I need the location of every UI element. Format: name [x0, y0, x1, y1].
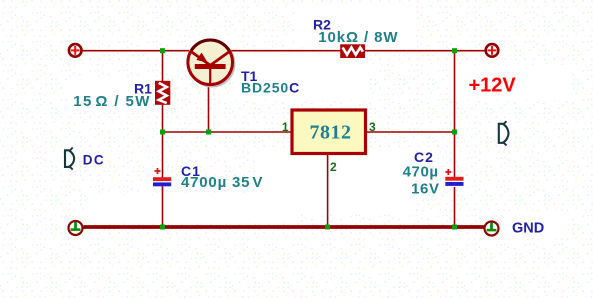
- wire R1 bottom branch: [162, 105, 164, 133]
- wire C2 top branch: [454, 132, 456, 177]
- +V output terminal: [486, 44, 499, 57]
- transistor T1: [188, 40, 234, 86]
- wire middle rail: [163, 131, 293, 133]
- capacitor C1: [153, 168, 171, 186]
- op-amp U1 7812 regulator: [292, 110, 366, 154]
- wire C2 bottom branch: [454, 187, 456, 227]
- resistor R1: [155, 81, 170, 105]
- ground terminal right GND: [485, 222, 499, 236]
- svg-text:GND: GND: [512, 221, 544, 237]
- wire 7812 pin2 ground branch: [327, 154, 329, 228]
- svg-text:15 Ω / 5W: 15 Ω / 5W: [73, 93, 151, 110]
- svg-text:4700µ 35 V: 4700µ 35 V: [181, 174, 263, 191]
- node DC input flag: [65, 148, 74, 170]
- svg-text:2: 2: [330, 160, 337, 174]
- svg-text:DC: DC: [83, 153, 106, 168]
- +V input terminal: [69, 44, 82, 57]
- wire right vertical upper: [454, 51, 456, 132]
- svg-text:16V: 16V: [411, 181, 440, 198]
- junction R1 middle rail: [160, 130, 165, 135]
- wire C1 bottom branch: [162, 186, 164, 227]
- node output flag: [499, 121, 509, 145]
- svg-text:3: 3: [369, 120, 376, 134]
- junction R1 top: [160, 48, 165, 53]
- svg-text:470µ: 470µ: [403, 164, 439, 181]
- wire C1 top branch: [162, 132, 164, 178]
- junction C2 bottom rail: [452, 225, 457, 230]
- resistor R2: [340, 44, 365, 58]
- junction pin2 bottom rail: [325, 225, 330, 230]
- junction right vertical middle: [452, 130, 457, 135]
- wire bottom ground rail: [84, 225, 485, 229]
- junction T1 base middle rail: [206, 130, 211, 135]
- svg-text:+12V: +12V: [469, 75, 517, 97]
- junction C1 bottom rail: [160, 225, 165, 230]
- wire 7812 output segment: [366, 131, 455, 133]
- svg-text:10kΩ / 8W: 10kΩ / 8W: [318, 29, 398, 46]
- wire T1 base branch: [208, 86, 210, 132]
- wire R1 top branch: [162, 51, 164, 82]
- capacitor C2: [445, 169, 463, 186]
- wire top rail right segment: [365, 50, 485, 52]
- svg-text:7812: 7812: [310, 121, 352, 143]
- junction right vertical top: [452, 48, 457, 53]
- svg-text:BD250C: BD250C: [241, 80, 300, 96]
- wire top rail middle segment: [231, 50, 341, 52]
- wire top rail left segment: [83, 50, 190, 52]
- svg-text:1: 1: [282, 120, 289, 134]
- ground terminal left: [69, 221, 83, 235]
